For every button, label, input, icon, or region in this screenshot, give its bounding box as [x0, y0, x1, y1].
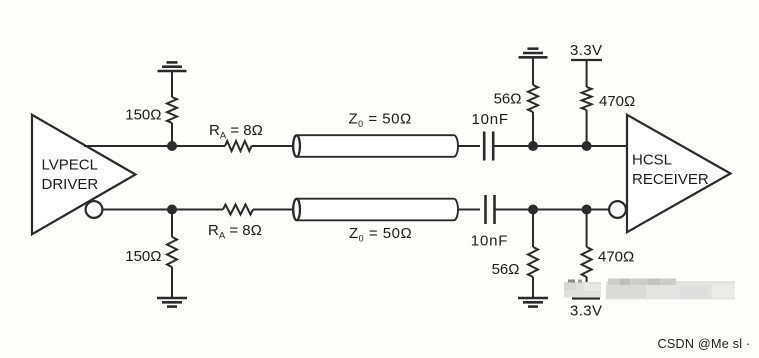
- wire: top line to capacitor 10nF: [458, 145, 480, 147]
- ground (bottom-right): [518, 298, 548, 307]
- svg-text:10nF: 10nF: [472, 111, 509, 128]
- inversion bubble on receiver inverting input: [609, 201, 626, 218]
- svg-text:DRIVER: DRIVER: [42, 176, 99, 193]
- capacitor 10nF (bottom): [486, 195, 495, 224]
- wire: bottom capacitor to node D: [495, 209, 534, 211]
- wire: bottom line to capacitor 10nF: [458, 209, 480, 211]
- wire: driver inverting output to node B: [102, 209, 172, 211]
- wire: resistor 470ohm top to node E: [586, 110, 588, 146]
- svg-text:56Ω: 56Ω: [494, 91, 522, 108]
- svg-text:RECEIVER: RECEIVER: [632, 171, 709, 188]
- wire: node A to RA top: [172, 145, 225, 147]
- ground (bottom-left): [157, 298, 187, 307]
- transmission line Z0 = 50ohm (top, coax cylinder): [293, 135, 458, 157]
- svg-text:Z0 = 50Ω: Z0 = 50Ω: [349, 225, 412, 244]
- power rail 3.3V (top): [570, 42, 602, 60]
- transmission line Z0 = 50ohm (bottom, coax cylinder): [293, 199, 458, 221]
- svg-text:470Ω: 470Ω: [599, 93, 635, 110]
- resistor RA = 8ohm (bottom): [223, 205, 253, 215]
- wire: resistor 56ohm bottom to ground: [532, 277, 534, 298]
- wire: top capacitor to node C: [493, 145, 533, 147]
- svg-text:3.3V: 3.3V: [570, 42, 602, 59]
- wire: 3.3V top rail to resistor 470ohm top: [586, 60, 588, 87]
- wire: resistor 150ohm top to node A: [171, 123, 173, 146]
- wire: node F to receiver inverting bubble: [587, 209, 610, 211]
- censored watermark patch (left, over bottom 3.3V area): [564, 280, 601, 298]
- resistor 470ohm (bottom): [582, 247, 592, 277]
- node C junction: [528, 141, 538, 151]
- svg-text:RA = 8Ω: RA = 8Ω: [208, 222, 262, 242]
- resistor 470ohm (top): [582, 87, 592, 110]
- wire: RA bottom to transmission line: [253, 209, 295, 211]
- node B junction: [167, 205, 177, 215]
- svg-text:3.3V: 3.3V: [570, 303, 602, 320]
- svg-text:RA = 8Ω: RA = 8Ω: [209, 122, 263, 142]
- svg-text:HCSL: HCSL: [632, 152, 672, 169]
- wire: node D to node F: [533, 209, 587, 211]
- resistor RA = 8ohm (top): [225, 141, 252, 151]
- resistor 56ohm (bottom): [528, 247, 538, 277]
- ground (inverted, top-left): [158, 62, 187, 71]
- wire: driver non-inverting output to node A: [84, 145, 172, 147]
- censored watermark patch (right): [606, 279, 735, 300]
- wire: resistor 56ohm top to node C: [532, 112, 534, 146]
- svg-text:150Ω: 150Ω: [125, 248, 161, 265]
- ground (inverted, top-right): [519, 49, 548, 58]
- resistor 56ohm (top): [528, 85, 538, 112]
- wire: resistor 470ohm bottom to 3.3V rail: [586, 277, 588, 299]
- svg-text:CSDN @Me sl ·: CSDN @Me sl ·: [658, 337, 751, 351]
- svg-text:470Ω: 470Ω: [598, 249, 634, 266]
- wire: node B to RA bottom: [172, 209, 223, 211]
- node A junction: [167, 141, 177, 151]
- wire: node F to resistor 470ohm bottom: [586, 210, 588, 248]
- wire: node E to receiver input: [587, 145, 628, 147]
- wire: top-left ground to resistor 150ohm top: [171, 71, 173, 97]
- node D junction: [528, 205, 538, 215]
- wire: node C to node E: [533, 145, 587, 147]
- svg-text:150Ω: 150Ω: [125, 107, 161, 124]
- op-amp U2 HCSL receiver (buffer triangle): [627, 115, 731, 232]
- wire: resistor 150ohm bottom to ground: [171, 267, 173, 298]
- svg-text:56Ω: 56Ω: [492, 261, 520, 278]
- svg-text:10nF: 10nF: [471, 233, 508, 250]
- node E junction: [582, 141, 592, 151]
- power rail 3.3V (bottom): [570, 299, 602, 320]
- wire: node D to resistor 56ohm bottom: [532, 210, 534, 248]
- svg-text:Z0 = 50Ω: Z0 = 50Ω: [349, 111, 412, 130]
- node F junction: [582, 205, 592, 215]
- wire: RA top to transmission line: [252, 145, 296, 147]
- resistor 150ohm (bottom): [167, 237, 177, 267]
- wire: node B to resistor 150ohm bottom: [171, 210, 173, 238]
- inversion bubble on driver inverting output: [86, 201, 103, 218]
- resistor 150ohm (top): [167, 97, 177, 123]
- op-amp U1 LVPECL driver (buffer triangle): [32, 115, 136, 234]
- capacitor 10nF (top): [484, 132, 493, 161]
- svg-text:LVPECL: LVPECL: [42, 157, 98, 174]
- wire: top-right ground to resistor 56ohm top: [532, 57, 534, 85]
